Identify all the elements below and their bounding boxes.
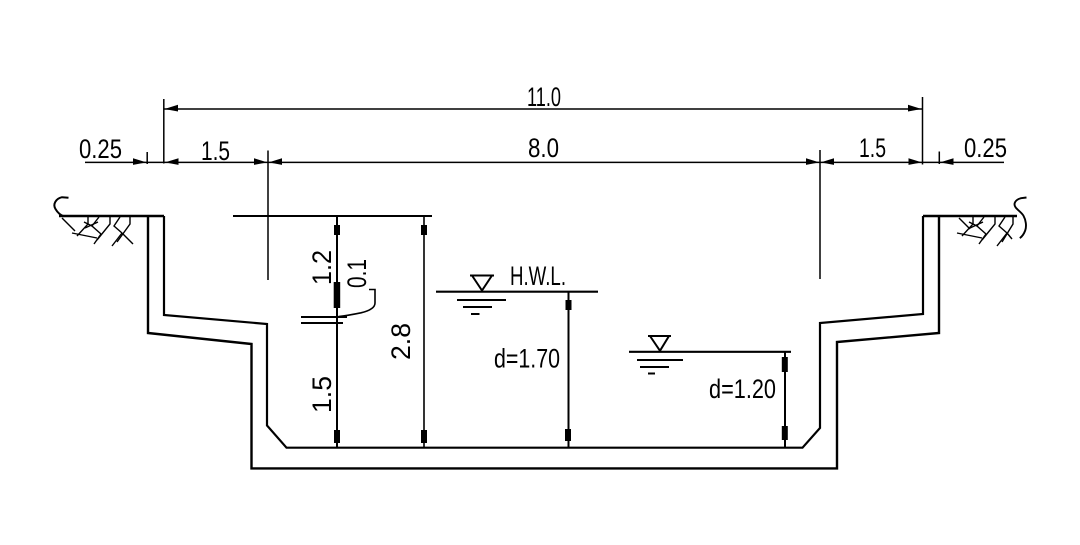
svg-text:1.5: 1.5 xyxy=(859,133,886,163)
dim text 0.1 (rotated) xyxy=(342,259,372,288)
water level symbol HWL xyxy=(470,276,494,291)
arrow at left wall tick xyxy=(133,158,147,165)
dim text 1.5 right xyxy=(859,133,886,163)
arrow right of wall tick right xyxy=(940,158,954,165)
dim text 11.0 xyxy=(527,82,561,112)
dim text 1.2 (rotated) xyxy=(307,250,337,285)
leader for 0.1 xyxy=(339,290,376,317)
arrows at extension x820 xyxy=(806,158,834,165)
text d=1.20 xyxy=(709,374,776,404)
wall face tick left xyxy=(146,152,148,164)
ground hatch right xyxy=(957,217,1013,246)
arrows at extension x268 xyxy=(254,158,282,165)
dim line d=1.20 xyxy=(782,352,788,448)
arrow left of extension x164 xyxy=(165,158,179,165)
channel outer outline xyxy=(148,216,939,468)
svg-text:H.W.L.: H.W.L. xyxy=(510,261,566,291)
text d=1.70 xyxy=(494,344,560,374)
svg-text:1.5: 1.5 xyxy=(307,376,337,413)
right water line xyxy=(629,351,791,353)
dim text 1.5 left xyxy=(201,136,230,166)
extension line x=164 xyxy=(163,99,165,164)
extension line x=820 xyxy=(819,150,821,279)
ground hatch left xyxy=(62,217,133,246)
svg-text:0.25: 0.25 xyxy=(79,134,122,164)
dimension line row2 xyxy=(85,161,1004,163)
svg-text:2.8: 2.8 xyxy=(386,323,416,360)
svg-text:0.1: 0.1 xyxy=(342,259,372,288)
vertical dim line 1 (1.2 / 1.5 stack) xyxy=(334,216,341,448)
extension line x=922.5 xyxy=(922,97,924,165)
svg-text:d=1.20: d=1.20 xyxy=(709,374,776,404)
berm datum line xyxy=(233,215,432,217)
dim text 8.0 xyxy=(528,133,559,163)
HWL sub lines xyxy=(457,300,506,314)
water level symbol right xyxy=(648,336,671,351)
svg-text:1.2: 1.2 xyxy=(307,250,337,285)
svg-text:11.0: 11.0 xyxy=(527,82,561,112)
channel inner outline xyxy=(164,216,923,448)
ground line left xyxy=(59,215,164,217)
lining top edge lines (0.1 gap) xyxy=(301,317,347,323)
svg-text:8.0: 8.0 xyxy=(528,133,559,163)
extension line x=268 xyxy=(267,151,269,281)
wall face tick right xyxy=(938,152,940,165)
break squiggle left xyxy=(54,197,68,216)
right water sub lines xyxy=(637,360,683,374)
dim text 0.25 left xyxy=(79,134,122,164)
arrow left of extension x922 xyxy=(909,158,922,165)
HWL water line xyxy=(436,291,598,293)
svg-text:1.5: 1.5 xyxy=(201,136,230,166)
dimension line 11.0 xyxy=(164,105,922,112)
text H.W.L. xyxy=(510,261,566,291)
dim text 1.5 (rotated) xyxy=(307,376,337,413)
dim line d=1.70 xyxy=(565,292,572,448)
break squiggle right xyxy=(1015,198,1027,239)
dim text 0.25 right xyxy=(964,133,1007,163)
ground line right xyxy=(923,215,1017,217)
vertical dim line 2 (2.8) xyxy=(421,216,427,448)
svg-text:0.25: 0.25 xyxy=(964,133,1007,163)
dim text 2.8 (rotated) xyxy=(386,323,416,360)
svg-text:d=1.70: d=1.70 xyxy=(494,344,560,374)
